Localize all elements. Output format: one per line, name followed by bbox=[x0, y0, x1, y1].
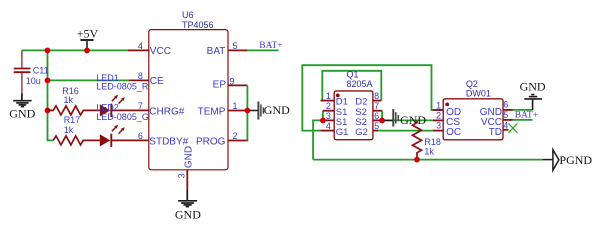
LED2 bbox=[100, 125, 149, 147]
svg-text:5: 5 bbox=[503, 110, 508, 120]
svg-text:GND: GND bbox=[9, 106, 35, 120]
ground below C11 bbox=[13, 94, 31, 107]
wire S1 jog pin2 bbox=[322, 111, 324, 121]
svg-text:1: 1 bbox=[233, 101, 238, 111]
svg-text:3: 3 bbox=[326, 111, 331, 121]
svg-text:1k: 1k bbox=[64, 125, 74, 135]
svg-text:PROG: PROG bbox=[196, 136, 226, 147]
svg-text:TP4056: TP4056 bbox=[182, 20, 214, 30]
svg-text:1: 1 bbox=[326, 91, 331, 101]
svg-text:PGND: PGND bbox=[559, 153, 592, 167]
svg-text:1k: 1k bbox=[64, 95, 74, 105]
U6 pin stubs right bbox=[228, 50, 248, 140]
wire VCC main bbox=[22, 49, 129, 51]
svg-text:7: 7 bbox=[374, 101, 379, 111]
Q2 pin1 marker bbox=[445, 103, 449, 107]
svg-text:10u: 10u bbox=[26, 76, 41, 86]
wire OC bbox=[378, 130, 433, 132]
wire Q2 pin5 BAT+ bbox=[513, 119, 533, 121]
LED1 bbox=[100, 95, 149, 117]
svg-text:3: 3 bbox=[436, 121, 441, 131]
capacitor C11 bbox=[14, 50, 31, 93]
ground flipped above Q2 bbox=[524, 95, 542, 111]
svg-text:8: 8 bbox=[374, 91, 379, 101]
svg-text:TD: TD bbox=[489, 127, 502, 138]
svg-text:BAT: BAT bbox=[207, 46, 226, 57]
wire PGND rail bbox=[313, 159, 542, 161]
transistor Q2 box bbox=[443, 99, 503, 140]
transistor Q1 stubs bbox=[321, 101, 383, 131]
svg-text:EP: EP bbox=[213, 80, 227, 91]
svg-text:1k: 1k bbox=[424, 147, 434, 157]
svg-text:9: 9 bbox=[229, 76, 234, 86]
svg-text:2: 2 bbox=[233, 131, 238, 141]
resistor R17 bbox=[53, 136, 100, 145]
svg-text:BAT+: BAT+ bbox=[515, 110, 538, 120]
wire CE bbox=[48, 79, 129, 81]
svg-text:GND: GND bbox=[183, 146, 194, 168]
svg-text:8: 8 bbox=[138, 71, 143, 81]
wire BAT+ bbox=[248, 49, 279, 51]
U6 pin 3 stub bottom bbox=[186, 170, 188, 190]
IC U6 TP4056 box bbox=[149, 30, 228, 170]
svg-text:6: 6 bbox=[503, 100, 508, 110]
svg-text:BAT+: BAT+ bbox=[259, 41, 282, 51]
svg-text:1: 1 bbox=[436, 100, 441, 110]
wire to GND tap 2 bbox=[385, 119, 393, 121]
svg-text:VCC: VCC bbox=[150, 46, 171, 57]
svg-text:LED-0805_R: LED-0805_R bbox=[96, 82, 149, 92]
junction CE bbox=[45, 78, 51, 84]
svg-text:OC: OC bbox=[446, 127, 461, 138]
svg-text:R17: R17 bbox=[64, 115, 81, 125]
svg-text:G2: G2 bbox=[355, 127, 368, 138]
svg-text:4: 4 bbox=[326, 121, 331, 131]
svg-text:LED-0805_G: LED-0805_G bbox=[96, 112, 149, 122]
Q2 pin names bbox=[446, 107, 502, 138]
junction S2 bbox=[379, 118, 385, 124]
resistor R18 bbox=[413, 120, 422, 159]
svg-text:2: 2 bbox=[436, 111, 441, 121]
svg-text:6: 6 bbox=[374, 111, 379, 121]
ground below U6 pin3 bbox=[178, 190, 197, 207]
svg-text:DW01: DW01 bbox=[466, 88, 491, 98]
svg-text:2: 2 bbox=[326, 101, 331, 111]
svg-text:CHRG#: CHRG# bbox=[149, 106, 184, 117]
no-connect X at TD bbox=[508, 123, 517, 132]
svg-text:5: 5 bbox=[374, 121, 379, 131]
svg-text:U6: U6 bbox=[182, 10, 194, 20]
svg-text:GND: GND bbox=[264, 103, 290, 117]
wire Q1 inner loop (D1-D2) bbox=[322, 71, 381, 101]
junction TEMP bbox=[245, 108, 251, 114]
svg-text:+5V: +5V bbox=[77, 26, 99, 40]
transistor Q2 stubs bbox=[433, 110, 513, 131]
wire S2 jog pin7 bbox=[381, 111, 383, 121]
net flag PGND bbox=[553, 150, 559, 171]
svg-text:5: 5 bbox=[233, 41, 238, 51]
wire Q1 outer loop (G1 to OD) bbox=[302, 65, 443, 130]
svg-text:GND: GND bbox=[520, 80, 546, 94]
junction +5V bbox=[84, 48, 90, 54]
wire S1 to PGND rail bbox=[313, 120, 323, 159]
wire EP riser bbox=[246, 85, 248, 140]
ground sideways at TEMP bbox=[258, 102, 263, 120]
svg-text:6: 6 bbox=[138, 131, 143, 141]
svg-text:GND: GND bbox=[175, 207, 201, 221]
ground sideways at S2 bbox=[393, 109, 398, 127]
+5V power flag bbox=[80, 40, 93, 50]
wire Q2 pin6 to GND bbox=[513, 109, 533, 111]
svg-text:CE: CE bbox=[150, 76, 164, 87]
wire left vertical bbox=[48, 50, 54, 140]
Q1 pin names bbox=[336, 97, 368, 138]
wire PGND tail bbox=[542, 159, 553, 161]
svg-text:4: 4 bbox=[503, 121, 508, 131]
junction R16 bbox=[45, 108, 51, 114]
svg-text:G1: G1 bbox=[336, 127, 349, 138]
svg-text:7: 7 bbox=[138, 101, 143, 111]
junction top-left bbox=[45, 48, 51, 54]
svg-text:STDBY#: STDBY# bbox=[149, 136, 188, 147]
svg-text:3: 3 bbox=[177, 173, 187, 178]
svg-text:C11: C11 bbox=[33, 65, 49, 75]
junction R18 bottom bbox=[414, 157, 420, 163]
svg-text:4: 4 bbox=[138, 41, 143, 51]
wire to GND tap bbox=[250, 110, 258, 112]
U6 pin stubs left bbox=[128, 50, 149, 80]
junction S1 bbox=[320, 118, 326, 124]
transistor Q1 box bbox=[334, 91, 373, 140]
svg-text:8205A: 8205A bbox=[347, 79, 373, 89]
wire CS bbox=[382, 119, 433, 121]
svg-text:TEMP: TEMP bbox=[198, 106, 226, 117]
Q1 pin1 marker bbox=[336, 94, 340, 98]
resistor R16 bbox=[48, 106, 100, 115]
